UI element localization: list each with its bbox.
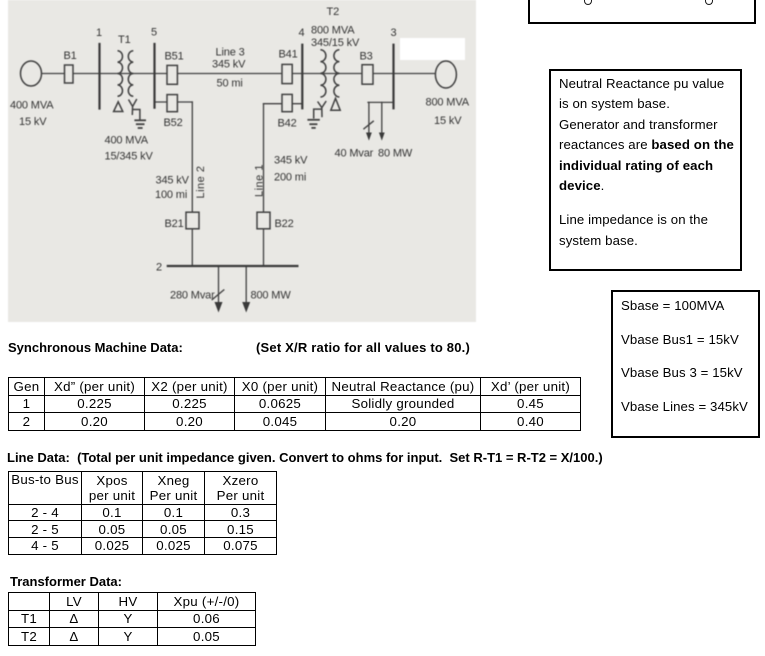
descender mark g1 bbox=[584, 0, 592, 5]
svg-text:280 Mvar: 280 Mvar bbox=[170, 290, 215, 302]
svg-text:B52: B52 bbox=[164, 117, 183, 129]
breaker B51 bbox=[167, 65, 177, 84]
switch slash 40 Mvar bbox=[363, 121, 373, 129]
svg-text:100 mi: 100 mi bbox=[155, 189, 187, 201]
wire load drop 80 MW bbox=[381, 102, 383, 133]
table transformer data bbox=[8, 592, 256, 646]
svg-text:800 MW: 800 MW bbox=[251, 290, 292, 302]
svg-text:B51: B51 bbox=[165, 51, 184, 63]
svg-text:50 mi: 50 mi bbox=[217, 78, 243, 90]
wire B21 to bus2 bbox=[191, 229, 193, 266]
wire B22 to bus2 bbox=[263, 229, 265, 266]
svg-text:15 kV: 15 kV bbox=[434, 115, 462, 127]
breaker B42 bbox=[282, 94, 292, 111]
svg-text:15 kV: 15 kV bbox=[19, 116, 47, 128]
transformer T1 bbox=[118, 51, 134, 97]
svg-text:3: 3 bbox=[391, 27, 397, 39]
wire bus3 load tap bbox=[368, 101, 394, 103]
svg-text:400 MVA: 400 MVA bbox=[105, 135, 149, 147]
svg-text:800 MVA: 800 MVA bbox=[311, 25, 355, 37]
breaker B21 bbox=[186, 212, 199, 229]
svg-text:B41: B41 bbox=[279, 49, 298, 61]
breaker B3 bbox=[362, 65, 373, 85]
svg-text:Line 2: Line 2 bbox=[195, 166, 207, 199]
bus 1 bbox=[98, 43, 100, 110]
generator G2 bbox=[435, 61, 456, 88]
T1 delta symbol bbox=[114, 102, 123, 112]
svg-text:Line 1: Line 1 bbox=[254, 164, 266, 197]
svg-text:800 MVA: 800 MVA bbox=[426, 97, 470, 109]
svg-text:80 MW: 80 MW bbox=[378, 148, 413, 160]
T1 wye symbol bbox=[129, 99, 140, 120]
white patch overlay bbox=[400, 38, 465, 60]
wire line 2 vertical bbox=[191, 102, 193, 212]
T2 delta symbol bbox=[331, 98, 340, 110]
heading line data bbox=[7, 450, 603, 465]
svg-text:B3: B3 bbox=[360, 51, 373, 63]
svg-text:B22: B22 bbox=[275, 218, 294, 230]
wire load drop 800 MW bbox=[245, 266, 247, 304]
svg-text:1: 1 bbox=[96, 27, 102, 39]
svg-text:2: 2 bbox=[156, 262, 162, 274]
svg-text:200 mi: 200 mi bbox=[274, 172, 306, 184]
svg-text:4: 4 bbox=[299, 27, 305, 39]
bus 5 bbox=[153, 43, 155, 109]
svg-text:5: 5 bbox=[151, 27, 157, 39]
bus 2 bbox=[167, 265, 299, 267]
svg-text:B42: B42 bbox=[278, 118, 297, 130]
generator G1 bbox=[21, 61, 42, 86]
svg-text:T2: T2 bbox=[327, 6, 340, 18]
table machine data bbox=[8, 377, 581, 431]
wire line 1 vertical bbox=[263, 104, 265, 213]
note box neutral reactance bbox=[549, 69, 742, 271]
descender mark g2 bbox=[705, 0, 713, 5]
load arrow 80 MW bbox=[379, 133, 385, 141]
load arrow 800 MW bbox=[242, 302, 250, 313]
breaker B41 bbox=[282, 64, 292, 83]
svg-text:15/345 kV: 15/345 kV bbox=[105, 151, 154, 163]
switch slash 280 Mvar bbox=[212, 290, 225, 301]
figure background bbox=[8, 0, 476, 322]
svg-text:T1: T1 bbox=[118, 34, 131, 46]
table line data bbox=[8, 471, 277, 555]
heading synchronous machine data bbox=[8, 340, 183, 355]
wire B42 to line1 bbox=[264, 103, 303, 105]
T1 ground bbox=[134, 120, 146, 128]
breaker B22 bbox=[257, 212, 270, 229]
wire load drop 40 Mvar bbox=[368, 102, 370, 133]
note box sbase bbox=[611, 290, 760, 438]
svg-text:40 Mvar: 40 Mvar bbox=[335, 148, 374, 160]
transformer T2 bbox=[320, 50, 339, 97]
schematic scanned figure bbox=[0, 0, 765, 330]
T2 ground bbox=[307, 120, 319, 128]
breaker B52 bbox=[167, 95, 177, 112]
svg-text:345/15 kV: 345/15 kV bbox=[311, 37, 360, 49]
wire bus5 to B52 bbox=[155, 101, 193, 103]
svg-text:345 kV: 345 kV bbox=[274, 155, 308, 167]
bus 4 bbox=[301, 44, 303, 110]
svg-text:345 kV: 345 kV bbox=[212, 59, 246, 71]
heading transformer data bbox=[10, 574, 122, 589]
svg-text:345 kV: 345 kV bbox=[156, 175, 190, 187]
svg-text:B21: B21 bbox=[165, 218, 184, 230]
load arrow 280 Mvar bbox=[215, 302, 223, 313]
svg-text:Line 3: Line 3 bbox=[216, 47, 245, 59]
bus 3 bbox=[392, 44, 394, 110]
heading set x/r ratio bbox=[256, 340, 470, 355]
note box top (cut off) bbox=[528, 0, 756, 24]
breaker B1 bbox=[65, 65, 74, 83]
load arrow 40 Mvar bbox=[366, 133, 372, 141]
svg-text:400 MVA: 400 MVA bbox=[10, 100, 54, 112]
wire load drop 280 Mvar bbox=[218, 266, 220, 304]
T2 wye symbol bbox=[314, 101, 327, 119]
svg-text:B1: B1 bbox=[64, 50, 77, 62]
wire main horizontal bbox=[42, 73, 436, 75]
